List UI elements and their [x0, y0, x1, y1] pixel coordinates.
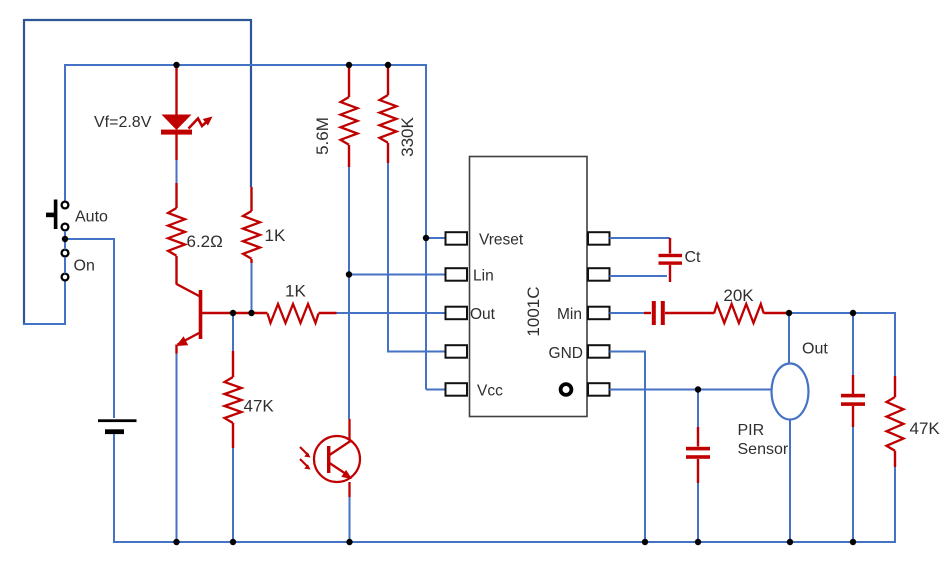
wire outer loop left side: [23, 19, 25, 325]
node top rail junction LED: [173, 62, 179, 68]
wire PIR bottom to rail: [789, 420, 791, 544]
wire top rail: [65, 64, 426, 66]
wire pin5R to PIR left terminal: [610, 389, 772, 391]
node Lin junction: [346, 271, 352, 277]
node Q1 base junction R5: [230, 310, 236, 316]
svg-text:Lin: Lin: [473, 268, 494, 285]
svg-text:Vreset: Vreset: [479, 232, 524, 249]
svg-text:1001C: 1001C: [524, 286, 543, 336]
svg-text:Auto: Auto: [75, 209, 108, 226]
wire pin2R to Ct: [610, 275, 668, 277]
transistor Q2 base bar: [327, 446, 330, 473]
transistor Q1 base bar: [199, 290, 203, 339]
wire Vreset tap: [426, 237, 446, 239]
wire node to PIR sensor top: [788, 313, 790, 364]
svg-text:1K: 1K: [265, 226, 286, 245]
node output junction after R7: [786, 310, 792, 316]
svg-text:Ct: Ct: [685, 249, 702, 266]
svg-text:Out: Out: [470, 306, 496, 323]
node rail junction R5: [230, 539, 236, 545]
node junction C4 top: [850, 310, 856, 316]
node rail junction C3: [695, 539, 701, 545]
svg-text:Sensor: Sensor: [738, 441, 789, 458]
pin 4R GND: [588, 345, 610, 358]
wire 330K column lower: [388, 162, 446, 352]
wire outer loop right side down to R2: [250, 19, 252, 187]
pin 5L Vcc: [446, 383, 468, 396]
capacitor C1 Ct: [669, 238, 671, 254]
wire Vcc tap: [426, 389, 446, 391]
svg-text:Min: Min: [557, 306, 582, 323]
wire pin3R Min to C2: [610, 312, 647, 314]
resistor R5 47K: [232, 313, 234, 351]
node rail junction C4: [850, 539, 856, 545]
wire bottom rail: [114, 541, 896, 543]
pin 5R inverted output bubble: [588, 383, 610, 396]
svg-text:20K: 20K: [723, 286, 754, 305]
switch S1 actuator: [54, 200, 58, 230]
wire 5.6M column to Lin and photo-transistor: [348, 166, 350, 419]
node Vreset junction: [423, 235, 429, 241]
node rail junction GND: [642, 539, 648, 545]
node rail junction Q1 emitter: [173, 539, 179, 545]
switch S1 contacts: [62, 202, 69, 209]
pin 1R: [588, 232, 610, 245]
node junction C3 top: [695, 386, 701, 392]
LED D1: [162, 115, 192, 131]
transistor Q1 emitter: [178, 333, 201, 345]
resistor R7 20K: [714, 304, 724, 323]
svg-text:Vcc: Vcc: [477, 383, 503, 400]
svg-text:1K: 1K: [285, 282, 306, 301]
pin 2R: [588, 268, 610, 281]
svg-text:PIR: PIR: [738, 422, 765, 439]
battery BT1: [98, 419, 137, 422]
capacitor C2: [644, 312, 651, 314]
capacitor C4: [852, 313, 854, 375]
pin 4L: [446, 345, 468, 358]
node top rail junction R4: [385, 62, 391, 68]
transistor Q2 light arrows: [300, 447, 308, 455]
transistor Q2 collector: [348, 419, 350, 442]
node Lin wire: [349, 274, 446, 276]
svg-text:47K: 47K: [910, 419, 941, 438]
resistor R4 330K: [387, 65, 389, 95]
transistor Q2 phototransistor body: [314, 436, 360, 482]
svg-text:GND: GND: [549, 345, 583, 362]
LED D1 anode lead: [175, 65, 177, 116]
node Q1 base junction R2: [248, 310, 254, 316]
wire switch throw segment: [64, 257, 66, 274]
LED D1 light arrow: [189, 119, 208, 129]
node switch common junction: [62, 236, 68, 242]
resistor R6 1K horizontal: [268, 304, 319, 323]
capacitor C3: [697, 390, 699, 428]
resistor R8 47K: [894, 376, 896, 397]
resistor R1 6.2ohm: [175, 183, 177, 208]
transistor Q1 collector: [177, 284, 201, 297]
svg-text:47K: 47K: [244, 397, 275, 416]
wire Q1 base: [202, 312, 268, 314]
node rail junction Q2: [346, 539, 352, 545]
pin 1L Vreset: [446, 232, 468, 245]
svg-text:On: On: [74, 258, 95, 275]
node top rail junction R3: [346, 62, 352, 68]
svg-text:5.6M: 5.6M: [313, 117, 332, 155]
wire LED cathode lead: [175, 134, 177, 160]
wire top rail left corner down to switch: [64, 64, 66, 201]
pin 3R Min: [588, 307, 610, 320]
wire Q1 emitter to bottom rail: [176, 354, 178, 544]
pin 2L Lin: [446, 268, 468, 281]
node rail junction PIR: [787, 539, 793, 545]
svg-text:6.2Ω: 6.2Ω: [187, 232, 223, 251]
svg-text:330K: 330K: [398, 116, 417, 156]
wire pin4R GND down to rail: [610, 352, 646, 544]
wire switch common to battery: [65, 239, 114, 418]
wire Q2 emitter to bottom rail: [348, 482, 350, 497]
wire Vreset/Vcc column: [425, 64, 427, 390]
op-amp U1 IC body: [470, 157, 588, 417]
svg-text:Vf=2.8V: Vf=2.8V: [94, 114, 152, 131]
wire battery negative to bottom rail: [113, 434, 115, 543]
wire switch bottom to outer loop: [23, 280, 65, 324]
resistor R2 1K vertical: [250, 187, 252, 211]
PIR sensor body: [772, 364, 809, 420]
wire Out to R6 (blue segment): [336, 312, 446, 314]
wire outer loop top edge: [24, 19, 251, 21]
node output net after R7: [789, 313, 895, 377]
wire pin1R to Ct: [610, 237, 671, 239]
wire switch pole segment: [64, 231, 66, 250]
resistor R3 5.6M: [348, 65, 350, 97]
pin 3L Out: [446, 307, 468, 320]
svg-text:Out: Out: [802, 341, 828, 358]
transistor Q2 emitter: [330, 463, 347, 474]
